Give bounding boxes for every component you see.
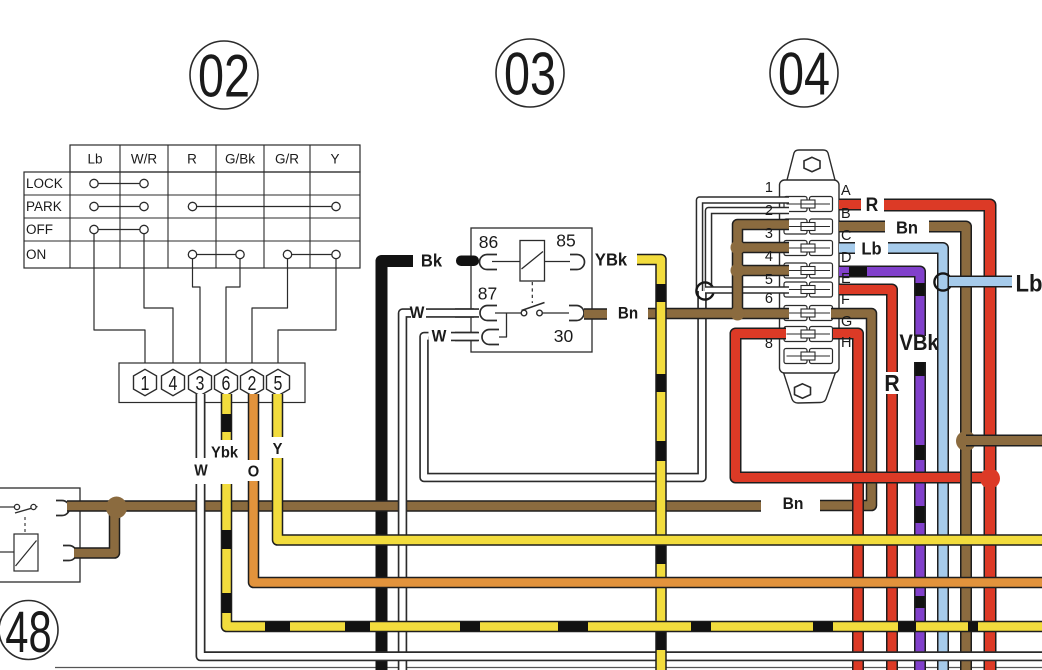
svg-text:PARK: PARK: [26, 199, 62, 214]
svg-text:3: 3: [196, 372, 205, 394]
svg-text:1: 1: [765, 180, 773, 196]
svg-text:86: 86: [479, 232, 498, 252]
svg-text:E: E: [841, 271, 851, 287]
svg-text:Bn: Bn: [896, 217, 918, 238]
svg-text:W: W: [194, 463, 208, 480]
svg-text:6: 6: [222, 372, 231, 394]
svg-text:YBk: YBk: [595, 249, 628, 270]
svg-text:R: R: [187, 152, 197, 167]
svg-text:OFF: OFF: [26, 222, 53, 237]
svg-text:5: 5: [765, 272, 773, 288]
svg-text:F: F: [841, 292, 850, 308]
svg-text:Bk: Bk: [421, 250, 443, 271]
svg-text:5: 5: [274, 372, 283, 394]
svg-text:W: W: [432, 327, 447, 346]
svg-text:ON: ON: [26, 247, 46, 262]
svg-text:D: D: [841, 250, 851, 266]
svg-text:G/Bk: G/Bk: [225, 152, 255, 167]
svg-text:6: 6: [765, 291, 773, 307]
svg-text:R: R: [866, 193, 879, 215]
svg-text:Bn: Bn: [618, 305, 638, 323]
svg-text:Y: Y: [330, 152, 339, 167]
svg-text:A: A: [841, 183, 851, 199]
svg-text:O: O: [248, 463, 259, 481]
svg-text:8: 8: [765, 336, 773, 352]
svg-text:4: 4: [765, 249, 773, 265]
svg-text:Bn: Bn: [783, 495, 804, 514]
svg-text:H: H: [841, 335, 851, 351]
svg-text:03: 03: [504, 41, 556, 108]
svg-text:W/R: W/R: [131, 152, 157, 167]
svg-text:R: R: [884, 370, 899, 396]
svg-text:48: 48: [5, 599, 51, 664]
svg-text:02: 02: [198, 43, 250, 110]
svg-text:G: G: [841, 314, 852, 330]
svg-text:2: 2: [765, 203, 773, 219]
svg-text:04: 04: [778, 41, 830, 108]
svg-text:Lb: Lb: [861, 238, 881, 259]
svg-text:30: 30: [554, 326, 574, 346]
svg-text:LOCK: LOCK: [26, 176, 63, 191]
svg-text:VBk: VBk: [899, 331, 939, 355]
svg-text:C: C: [841, 228, 851, 244]
svg-text:Lb: Lb: [1016, 269, 1042, 296]
svg-text:85: 85: [556, 231, 575, 251]
svg-text:87: 87: [478, 284, 497, 304]
svg-text:Lb: Lb: [87, 152, 102, 167]
svg-text:1: 1: [141, 372, 150, 394]
svg-text:B: B: [841, 206, 851, 222]
svg-text:3: 3: [765, 226, 773, 242]
svg-text:2: 2: [248, 372, 257, 394]
svg-text:Ybk: Ybk: [211, 444, 238, 462]
svg-text:Y: Y: [273, 441, 283, 459]
svg-text:W: W: [410, 304, 425, 323]
svg-text:4: 4: [169, 372, 178, 394]
svg-text:G/R: G/R: [275, 152, 299, 167]
